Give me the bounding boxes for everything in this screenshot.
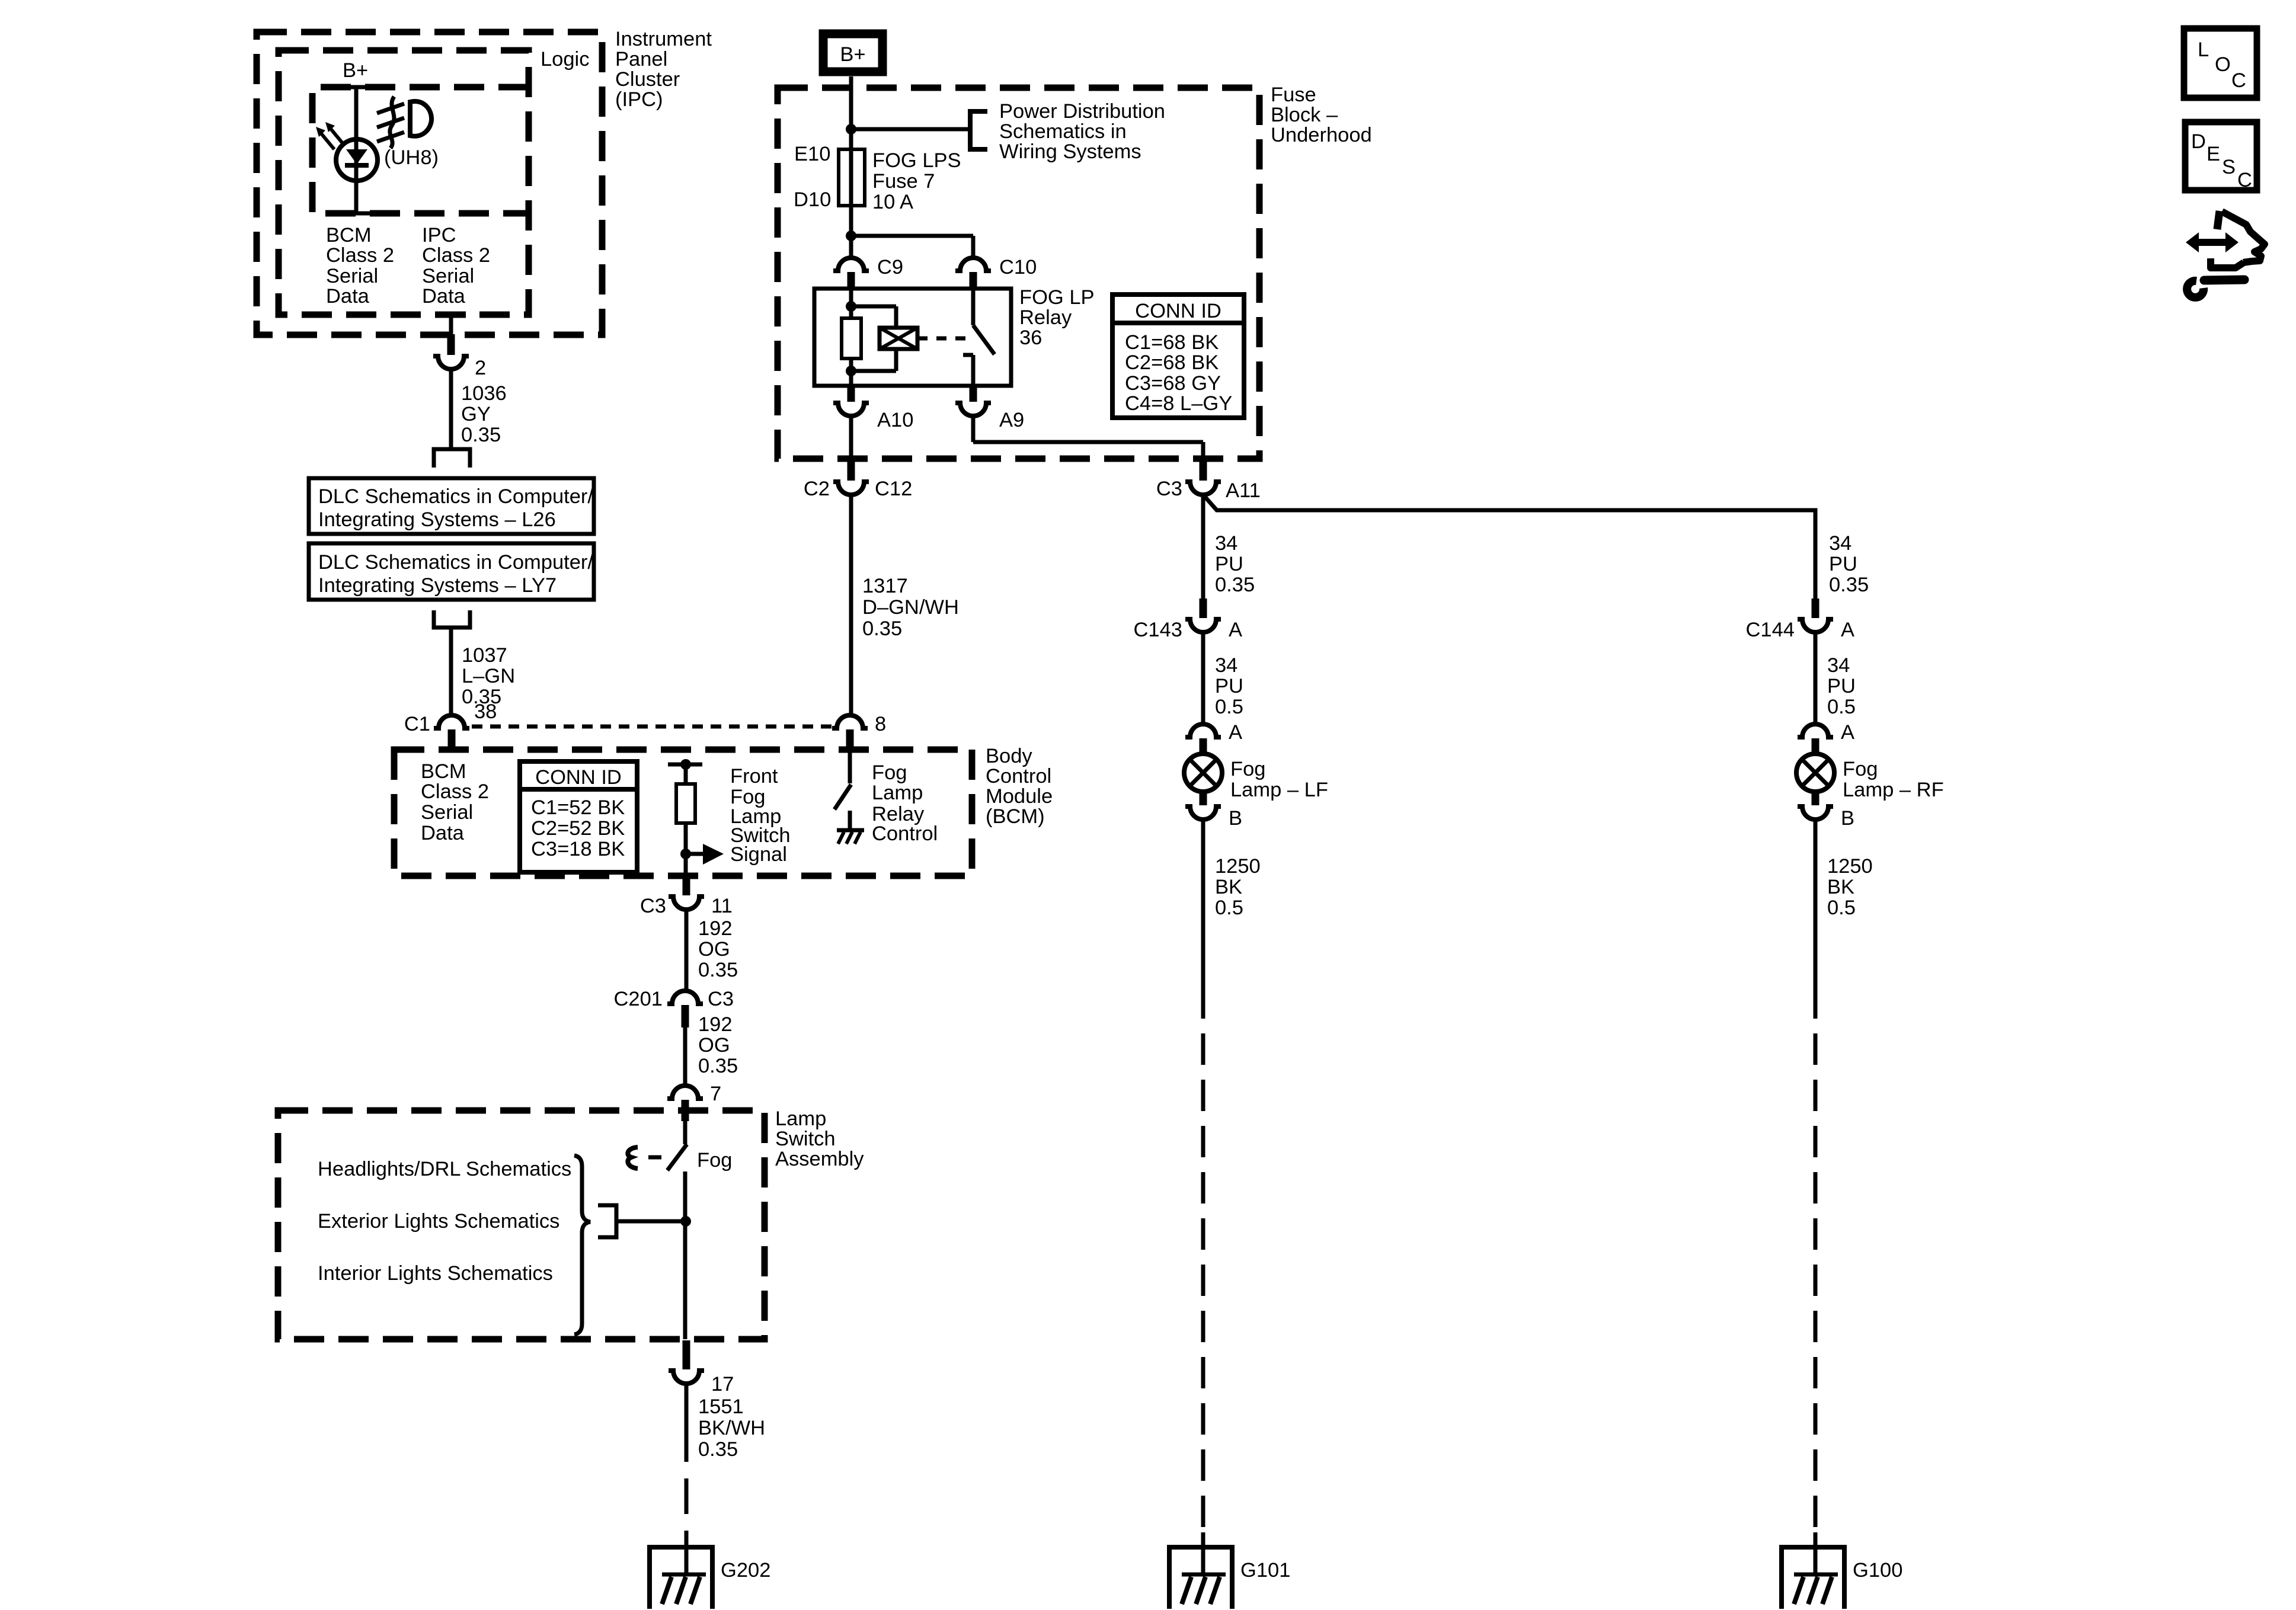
svg-text:C9: C9 (877, 256, 903, 279)
svg-text:10 A: 10 A (872, 191, 913, 213)
svg-text:C4=8 L–GY: C4=8 L–GY (1125, 392, 1232, 415)
svg-text:D10: D10 (794, 188, 831, 211)
wire 1036 GY 0.35 (451, 369, 507, 449)
svg-text:Fuse: Fuse (1271, 84, 1316, 106)
svg-text:34: 34 (1215, 532, 1237, 555)
svg-text:192: 192 (698, 917, 733, 940)
label: Instrument Panel Cluster (IPC) (615, 28, 712, 111)
BCM internal: signal arrow (686, 844, 724, 865)
svg-text:L: L (2198, 39, 2209, 61)
switch detent symbol (628, 1147, 661, 1169)
connector B (left fog lamp) (1185, 790, 1242, 830)
svg-text:GY: GY (461, 403, 491, 425)
svg-text:Serial: Serial (421, 801, 473, 824)
svg-text:2: 2 (475, 357, 486, 379)
svg-text:OG: OG (698, 938, 730, 961)
wire 1037 L-GN 0.35 (451, 628, 515, 715)
svg-text:34: 34 (1215, 654, 1237, 677)
svg-text:34: 34 (1829, 532, 1851, 555)
wire: B+ to fuse block (849, 76, 853, 149)
svg-text:11: 11 (711, 895, 733, 917)
svg-text:0.5: 0.5 (1215, 696, 1243, 718)
svg-text:1036: 1036 (461, 382, 507, 405)
wire 1250 BK 0.5 (right) (1815, 820, 1873, 987)
ground G202 (650, 1547, 770, 1609)
wire 34 PU 0.5 (left) (1203, 632, 1243, 724)
svg-text:1037: 1037 (462, 644, 507, 667)
wire: connector link C1 to 8 (fine dashed) (472, 725, 832, 729)
svg-text:Class 2: Class 2 (421, 780, 489, 803)
connector C144 pin A (1746, 598, 1855, 641)
svg-text:Serial: Serial (326, 265, 378, 287)
node B+ (battery feed box) (823, 34, 882, 72)
svg-text:B: B (1841, 807, 1854, 830)
BCM internal: fog lamp switch signal resistor (668, 759, 702, 876)
relay internal: coil (box with X) (880, 328, 917, 349)
connector 17 (lamp switch bottom) (669, 1340, 734, 1395)
connector C2/C12 (fuse block bottom) (804, 460, 912, 500)
svg-text:C: C (2237, 169, 2252, 191)
table: CONN ID (fuse block) (1112, 295, 1244, 418)
svg-text:C2: C2 (804, 478, 830, 500)
svg-text:C201: C201 (614, 988, 663, 1010)
svg-text:DLC Schematics in Computer/: DLC Schematics in Computer/ (318, 485, 593, 508)
svg-text:PU: PU (1827, 675, 1856, 697)
connector B (right fog lamp) (1798, 790, 1854, 830)
svg-text:BCM: BCM (326, 224, 372, 247)
svg-text:OG: OG (698, 1034, 730, 1057)
svg-text:0.35: 0.35 (1215, 574, 1255, 596)
svg-text:7: 7 (710, 1083, 721, 1105)
svg-text:Integrating Systems – L26: Integrating Systems – L26 (318, 508, 556, 531)
wire: A9 to C3/A11 (973, 416, 1203, 460)
connector A (right fog lamp) (1798, 721, 1854, 755)
svg-text:Schematics in: Schematics in (999, 120, 1127, 143)
svg-text:C: C (2231, 69, 2246, 92)
svg-text:C2=52 BK: C2=52 BK (531, 817, 625, 840)
svg-text:C3: C3 (1156, 478, 1182, 500)
svg-text:8: 8 (875, 713, 886, 735)
wire 34 PU 0.35 (right fog lamp) (1829, 532, 1869, 596)
svg-text:E: E (2207, 143, 2220, 165)
connector A10 (relay output) (833, 385, 913, 431)
ground G101 (1169, 1547, 1290, 1609)
svg-text:Signal: Signal (730, 843, 787, 866)
svg-text:CONN ID: CONN ID (535, 766, 622, 789)
svg-text:Lamp: Lamp (872, 782, 923, 804)
svg-text:Class 2: Class 2 (422, 244, 490, 267)
lamp indicator LED UH8 (circle with diode) (336, 139, 378, 181)
svg-text:1250: 1250 (1827, 855, 1873, 878)
junction: relay feed node (846, 231, 973, 258)
svg-text:A11: A11 (1226, 479, 1261, 502)
relay internal: coil branch wires (846, 289, 896, 386)
svg-text:C3=18 BK: C3=18 BK (531, 838, 625, 860)
svg-text:Power Distribution: Power Distribution (999, 100, 1165, 123)
connector C143 pin A (1134, 598, 1243, 641)
svg-text:0.35: 0.35 (698, 1438, 738, 1461)
svg-text:Switch: Switch (775, 1128, 836, 1150)
svg-text:Fog: Fog (697, 1149, 732, 1172)
svg-text:Fuse 7: Fuse 7 (872, 170, 935, 193)
label: Fuse Block - Underhood (1271, 84, 1372, 146)
connector 2 (IPC) (433, 334, 486, 379)
svg-text:D: D (2191, 130, 2206, 153)
svg-text:A9: A9 (999, 409, 1024, 431)
svg-text:L–GN: L–GN (462, 665, 515, 687)
relay FOG LP Relay 36 (box) (814, 286, 1095, 386)
ground G100 (1782, 1547, 1902, 1609)
svg-text:C1: C1 (404, 713, 430, 735)
icon: LOC reference box (2184, 28, 2257, 98)
svg-text:Assembly: Assembly (775, 1148, 864, 1170)
svg-text:G202: G202 (721, 1559, 770, 1582)
wire: IPC serial data out of logic box (436, 315, 466, 335)
svg-text:FOG LP: FOG LP (1019, 286, 1095, 309)
svg-text:Exterior Lights Schematics: Exterior Lights Schematics (318, 1210, 559, 1233)
connector C201/C3 (614, 988, 734, 1028)
svg-text:A: A (1229, 619, 1242, 641)
svg-text:G100: G100 (1853, 1559, 1902, 1582)
label: Body Control Module (BCM) (986, 745, 1053, 828)
wire 192 OG 0.35 (lower) (685, 1013, 738, 1086)
svg-text:A: A (1229, 721, 1242, 744)
box: Logic dashed outline (279, 50, 529, 315)
svg-text:0.5: 0.5 (1827, 696, 1856, 718)
svg-text:Fog: Fog (872, 761, 907, 784)
connector C10 (relay switch feed) (955, 256, 1037, 290)
svg-text:D–GN/WH: D–GN/WH (862, 596, 959, 619)
svg-text:BK/WH: BK/WH (698, 1417, 765, 1439)
relay internal: resistor (842, 318, 861, 359)
wire: B+ rail down through indicator LED (341, 87, 371, 213)
label: BCM Class 2 Serial Data (IPC internal) (326, 224, 394, 308)
svg-text:Module: Module (986, 785, 1053, 808)
wire: dashed drop to G100 (1814, 987, 1818, 1574)
label: schematics references (318, 1158, 571, 1285)
destination bracket above DLC box (434, 449, 470, 468)
box: Fuse Block - Underhood dashed outline (778, 88, 1259, 459)
svg-text:DLC Schematics in Computer/: DLC Schematics in Computer/ (318, 551, 593, 574)
connector C9 (relay coil feed) (833, 256, 903, 290)
svg-text:(BCM): (BCM) (986, 805, 1045, 828)
svg-text:C3: C3 (640, 895, 666, 917)
connector C3/A11 (fuse block bottom right) (1156, 460, 1261, 502)
svg-text:BCM: BCM (421, 760, 466, 783)
svg-text:A10: A10 (877, 409, 913, 431)
relay internal: actuation dashed link (917, 337, 968, 341)
connector C3 pin 11 (BCM bottom) (640, 876, 733, 917)
box: DLC Schematics in Computer/Integrating Systems - LY7 (309, 543, 594, 600)
svg-text:PU: PU (1215, 553, 1243, 575)
svg-text:C10: C10 (999, 256, 1037, 279)
svg-text:IPC: IPC (422, 224, 456, 247)
svg-text:O: O (2215, 53, 2231, 76)
connector A (left fog lamp) (1185, 721, 1242, 755)
label: BCM Class 2 Serial Data (421, 760, 489, 844)
label: IPC Class 2 Serial Data (422, 224, 490, 308)
reference bracket: Power Distribution Schematics (970, 100, 1165, 163)
svg-text:Panel: Panel (615, 48, 667, 71)
wire: A10 to C2/C12 (849, 416, 853, 460)
svg-text:(IPC): (IPC) (615, 88, 663, 111)
svg-text:Data: Data (326, 285, 370, 308)
svg-text:1551: 1551 (698, 1395, 744, 1418)
svg-text:A: A (1841, 721, 1854, 744)
svg-text:Data: Data (422, 285, 466, 308)
svg-text:Class 2: Class 2 (326, 244, 394, 267)
svg-text:Logic: Logic (541, 48, 589, 71)
switch: fog position contact (667, 1121, 687, 1339)
svg-text:Front: Front (730, 765, 778, 788)
relay internal: switch contact (963, 289, 994, 386)
junction: B+ feed node (846, 124, 970, 135)
box: DLC Schematics in Computer/Integrating Systems - L26 (309, 478, 594, 534)
svg-text:PU: PU (1215, 675, 1243, 697)
svg-text:0.35: 0.35 (1829, 574, 1869, 596)
svg-text:Instrument: Instrument (615, 28, 712, 50)
svg-text:S: S (2222, 156, 2236, 178)
svg-text:Data: Data (421, 822, 465, 844)
connector 7 (lamp switch) (667, 1083, 721, 1121)
svg-text:C1=52 BK: C1=52 BK (531, 796, 625, 819)
svg-text:38: 38 (474, 700, 497, 723)
svg-text:PU: PU (1829, 553, 1857, 575)
svg-text:192: 192 (698, 1013, 733, 1036)
box: Body Control Module (BCM) dashed outline (394, 750, 972, 876)
svg-text:B: B (1229, 807, 1242, 830)
svg-text:0.35: 0.35 (461, 424, 501, 446)
svg-text:G101: G101 (1240, 1559, 1290, 1582)
LED emission arrows (316, 122, 344, 149)
svg-text:0.5: 0.5 (1215, 897, 1243, 919)
label: Front Fog Lamp Switch Signal (730, 765, 791, 866)
svg-text:(UH8): (UH8) (384, 146, 439, 169)
svg-text:Underhood: Underhood (1271, 124, 1372, 146)
wire 34 PU 0.35 (left fog lamp) (1203, 495, 1255, 600)
label: Lamp Switch Assembly (775, 1108, 864, 1170)
svg-text:FOG LPS: FOG LPS (872, 149, 961, 172)
label: Logic (541, 48, 589, 71)
wire 1551 BK/WH 0.35 (686, 1384, 765, 1462)
svg-text:B+: B+ (840, 43, 865, 66)
svg-text:E10: E10 (794, 143, 830, 165)
lamp: Fog Lamp - LF (1184, 754, 1328, 801)
box: Lamp Switch Assembly dashed outline (278, 1110, 765, 1339)
svg-text:C143: C143 (1134, 619, 1182, 641)
svg-text:0.35: 0.35 (698, 959, 738, 981)
svg-text:Integrating Systems – LY7: Integrating Systems – LY7 (318, 574, 557, 597)
svg-text:0.35: 0.35 (862, 617, 902, 640)
node B+ (IPC internal supply) (343, 59, 368, 82)
svg-text:Cluster: Cluster (615, 68, 680, 91)
svg-text:C1=68 BK: C1=68 BK (1125, 331, 1219, 354)
svg-text:CONN ID: CONN ID (1135, 300, 1221, 322)
label: Fog Lamp Relay Control (872, 761, 938, 845)
svg-text:Lamp: Lamp (775, 1108, 826, 1130)
svg-text:0.35: 0.35 (698, 1055, 738, 1077)
svg-text:B+: B+ (343, 59, 368, 82)
label: (UH8) (384, 146, 439, 169)
svg-text:1250: 1250 (1215, 855, 1261, 878)
svg-text:BK: BK (1215, 876, 1242, 898)
svg-text:Fog: Fog (1843, 758, 1878, 780)
lamp: Fog Lamp - RF (1796, 754, 1944, 801)
svg-text:Interior Lights Schematics: Interior Lights Schematics (318, 1262, 553, 1285)
svg-text:1317: 1317 (862, 575, 908, 597)
svg-text:17: 17 (711, 1373, 734, 1395)
destination bracket below DLC box (434, 610, 470, 628)
icon: service operation (arrow, panel, wrench) (2186, 211, 2265, 297)
svg-text:C144: C144 (1746, 619, 1795, 641)
pin 38 label (474, 700, 497, 723)
svg-text:Lamp – RF: Lamp – RF (1843, 779, 1944, 801)
BCM internal: control ground symbol (837, 830, 864, 844)
connector 8 (BCM top) (832, 713, 886, 752)
brace grouping schematics references (574, 1156, 590, 1334)
svg-text:34: 34 (1827, 654, 1850, 677)
svg-text:Fog: Fog (1230, 758, 1265, 780)
wire 34 PU 0.5 (right) (1815, 632, 1856, 724)
svg-text:BK: BK (1827, 876, 1854, 898)
destination bracket (lamp switch common) (598, 1205, 691, 1237)
svg-text:Block –: Block – (1271, 104, 1338, 126)
table: CONN ID (BCM) (520, 761, 637, 872)
BCM internal: fog lamp relay control driver (834, 752, 851, 829)
svg-text:C2=68 BK: C2=68 BK (1125, 351, 1219, 374)
wire 1250 BK 0.5 (left) (1203, 820, 1261, 987)
wire: A11 branch to right fog lamp (1203, 495, 1815, 600)
svg-text:Headlights/DRL Schematics: Headlights/DRL Schematics (318, 1158, 571, 1180)
svg-text:Control: Control (872, 822, 938, 845)
box: Instrument Panel Cluster (IPC) dashed outline (257, 32, 602, 335)
svg-text:Lamp – LF: Lamp – LF (1230, 779, 1328, 801)
svg-text:A: A (1841, 619, 1854, 641)
svg-text:0.5: 0.5 (1827, 897, 1856, 919)
svg-text:Relay: Relay (1019, 306, 1072, 329)
wire: dashed drop to G202 (685, 1478, 689, 1574)
svg-text:Wiring Systems: Wiring Systems (999, 140, 1141, 163)
icon: DESC reference box (2185, 122, 2257, 191)
svg-text:Control: Control (986, 765, 1051, 788)
box: fog lamp indicator dashed outline (312, 87, 529, 213)
wire 192 OG 0.35 (upper) (686, 910, 738, 991)
connector C1 (BCM) (404, 713, 469, 752)
icon: front fog lamp symbol (377, 97, 431, 148)
wire: dashed drop to G101 (1201, 987, 1205, 1574)
wire 1317 D-GN/WH 0.35 (851, 495, 959, 715)
svg-text:36: 36 (1019, 327, 1042, 349)
connector A9 (relay switched output) (955, 385, 1024, 431)
fuse FOG LPS Fuse 7 10A (794, 143, 961, 213)
label: Fog (697, 1149, 732, 1172)
svg-text:Serial: Serial (422, 265, 474, 287)
wire: fuse to relay feed (849, 206, 853, 258)
svg-text:C12: C12 (875, 478, 912, 500)
svg-text:C3=68 GY: C3=68 GY (1125, 372, 1221, 395)
svg-text:C3: C3 (708, 988, 734, 1010)
svg-text:Body: Body (986, 745, 1032, 767)
